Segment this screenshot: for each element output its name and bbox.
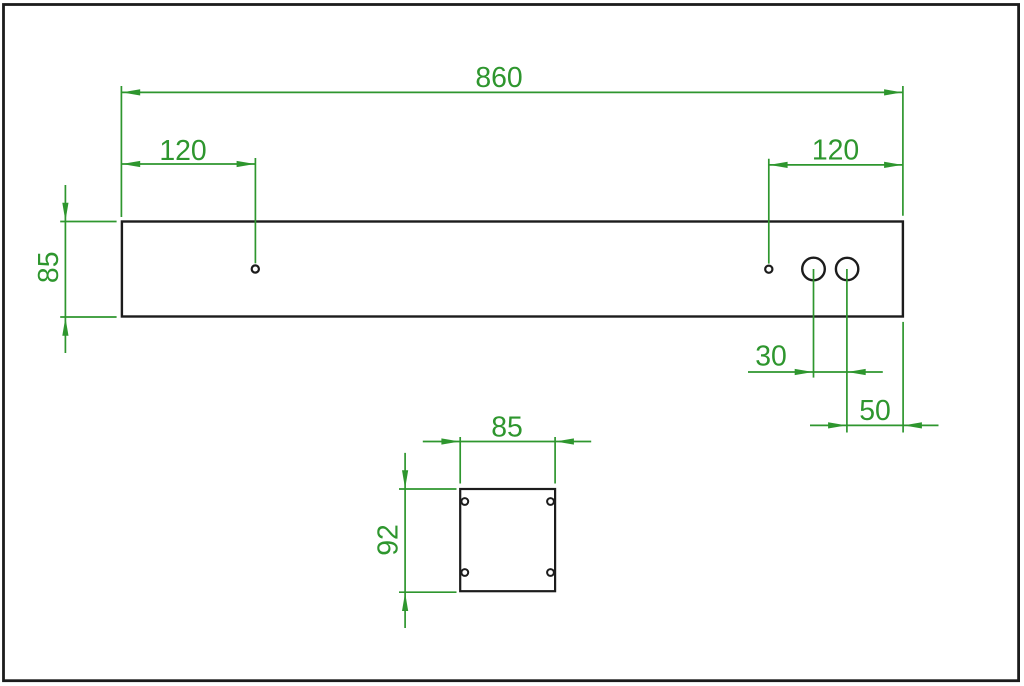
dimension 30 extension line from hole large 1 [813, 269, 815, 378]
square outline (section view) [460, 489, 555, 591]
dimension 860 line [121, 91, 903, 93]
square hole top-right [547, 498, 554, 505]
svg-text:92: 92 [373, 524, 405, 556]
square hole bottom-left [461, 569, 468, 576]
dimension 50 extension line right [902, 322, 904, 433]
dimension 92 line [404, 453, 406, 628]
dimension 85 bar arrow top [62, 203, 68, 221]
dimension 860 extension line right [902, 86, 904, 216]
dimension 50 arrow right [904, 422, 922, 428]
dimension 120 right arrow left [769, 162, 787, 168]
dimension 30 arrow right [847, 369, 865, 375]
dimension 92 arrow top [402, 470, 408, 488]
hole large 2 [836, 258, 858, 280]
dimension 30 extension line from hole large 2 [846, 269, 848, 433]
hole right small [765, 266, 772, 273]
square hole bottom-right [547, 569, 554, 576]
svg-text:50: 50 [859, 395, 891, 427]
dimension 50 arrow left [828, 422, 846, 428]
dimension 85 bar extension line top [60, 221, 116, 223]
main bar outline (front view) [122, 222, 903, 317]
dimension 85 bar arrow bottom [62, 318, 68, 336]
dimension 120 left extension line [254, 158, 256, 263]
svg-text:30: 30 [755, 341, 787, 373]
svg-text:120: 120 [812, 135, 859, 167]
dimension 120 left arrow right [237, 161, 255, 167]
dimension 85 square arrow left [441, 438, 459, 444]
dimension 85 bar extension line bottom [60, 316, 116, 318]
dimension 92 extension line bottom [399, 591, 457, 593]
dimension 85 square extension line right [554, 437, 556, 484]
dimension 85 square line [423, 441, 591, 443]
dimension 860 arrow left [122, 89, 140, 95]
svg-text:85: 85 [33, 252, 65, 284]
svg-text:860: 860 [475, 62, 522, 94]
dimension 85 square arrow right [556, 438, 574, 444]
dimension 85 square extension line left [459, 437, 461, 484]
hole large 1 [802, 258, 825, 281]
dimension 92 extension line top [399, 488, 457, 490]
dimension 120 right line [769, 164, 903, 166]
dimension 85 bar line [64, 185, 66, 353]
dimension 120 right extension line [768, 159, 770, 264]
dimension 120 left arrow left [122, 161, 140, 167]
dimension 120 right arrow right [884, 162, 902, 168]
square hole top-left [461, 498, 468, 505]
hole left small [252, 265, 259, 272]
dimension 30 line [748, 371, 883, 373]
dimension 50 line [810, 424, 939, 426]
dimension 860 arrow right [884, 89, 902, 95]
dimension 30 arrow left [795, 369, 813, 375]
svg-text:120: 120 [159, 135, 206, 167]
dimension 92 arrow bottom [402, 593, 408, 611]
dimension 860 extension line left [120, 86, 122, 217]
dimension 120 left line [121, 163, 255, 165]
svg-text:85: 85 [491, 412, 523, 444]
